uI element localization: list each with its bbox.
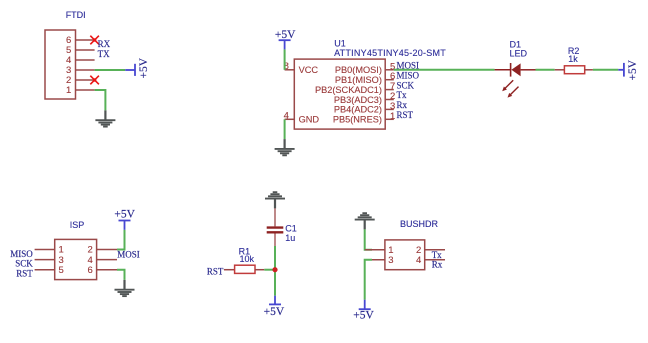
ISP pin 6 xyxy=(97,269,117,271)
BUSHDR pin 2 xyxy=(425,249,445,251)
svg-text:Tx: Tx xyxy=(432,250,442,260)
wire MOSI net U1 to LED xyxy=(394,69,495,71)
svg-text:PB2(SCKADC1): PB2(SCKADC1) xyxy=(315,85,382,95)
wire FTDI pin3 to +5V xyxy=(95,69,126,71)
ISP pin 4 xyxy=(97,259,117,261)
svg-text:+5V: +5V xyxy=(275,29,296,41)
FTDI body xyxy=(45,30,76,99)
op IC U1 body xyxy=(294,59,385,129)
svg-text:SCK: SCK xyxy=(397,80,415,90)
U1 pin 6 PB1 xyxy=(385,79,394,81)
wire LED to R2 xyxy=(536,69,555,71)
svg-text:6: 6 xyxy=(88,265,93,276)
svg-text:10k: 10k xyxy=(240,254,255,264)
supply +5V below C1 xyxy=(264,296,285,319)
LED D1 xyxy=(495,40,536,98)
svg-text:RST: RST xyxy=(397,110,414,120)
svg-text:BUSHDR: BUSHDR xyxy=(400,219,439,229)
wire ISP pin2 to +5V xyxy=(117,230,125,250)
ground above BUSHDR xyxy=(355,213,375,229)
FTDI pin 3 xyxy=(76,69,95,71)
svg-text:Rx: Rx xyxy=(432,260,443,270)
svg-text:+5V: +5V xyxy=(627,59,639,80)
wire R2 to +5V xyxy=(593,69,618,71)
U1 pin 7 PB2 xyxy=(385,89,394,91)
svg-text:PB4(ADC2): PB4(ADC2) xyxy=(334,105,382,115)
junction dot xyxy=(272,267,277,272)
ground at ISP xyxy=(115,280,135,296)
svg-text:PB1(MISO): PB1(MISO) xyxy=(335,75,382,85)
supply +5V right xyxy=(618,59,639,80)
supply +5V below BUSHDR xyxy=(353,300,374,322)
wire ISP pin6 to ground xyxy=(117,270,125,280)
svg-text:MISO: MISO xyxy=(397,70,420,80)
svg-text:1k: 1k xyxy=(568,54,578,64)
svg-text:Tx: Tx xyxy=(397,90,407,100)
capacitor C1 xyxy=(267,208,297,246)
resistor R1 xyxy=(224,246,264,273)
BUSHDR pin 3 xyxy=(365,259,385,261)
svg-text:ATTINY45TINY45-20-SMT: ATTINY45TINY45-20-SMT xyxy=(334,48,446,58)
U1 pin 3 PB4 xyxy=(385,108,394,110)
ground at U1 xyxy=(275,139,295,155)
U1 pin 8 VCC xyxy=(285,69,295,71)
svg-text:ISP: ISP xyxy=(70,220,85,230)
svg-text:1: 1 xyxy=(390,111,395,122)
FTDI pin 4 xyxy=(76,59,95,61)
resistor R2 xyxy=(555,46,593,74)
svg-text:3: 3 xyxy=(388,255,393,266)
svg-text:SCK: SCK xyxy=(15,258,33,268)
svg-text:GND: GND xyxy=(299,115,320,125)
svg-text:C1: C1 xyxy=(285,223,297,233)
U1 pin 2 PB3 xyxy=(385,99,394,101)
svg-text:MOSI: MOSI xyxy=(117,249,140,259)
svg-text:5: 5 xyxy=(59,265,64,276)
svg-text:PB0(MOSI): PB0(MOSI) xyxy=(335,65,382,75)
connector BUSHDR xyxy=(365,219,445,270)
svg-text:RST: RST xyxy=(16,268,33,278)
BUSHDR pin 4 xyxy=(425,259,445,261)
LED arrow 1 xyxy=(505,80,514,89)
connector ISP xyxy=(35,220,117,280)
svg-text:RX: RX xyxy=(98,39,111,49)
ISP pin 1 xyxy=(35,249,55,251)
svg-text:+5V: +5V xyxy=(114,209,135,221)
svg-text:Rx: Rx xyxy=(397,100,408,110)
ground at FTDI pin1 xyxy=(95,110,115,126)
U1 pin 5 PB0 xyxy=(385,69,394,71)
wire BUSHDR pin3 to +5V xyxy=(365,260,372,300)
wire FTDI pin1 to ground xyxy=(95,90,106,110)
svg-text:1: 1 xyxy=(66,85,71,96)
no-connect X on FTDI pin 6 xyxy=(90,36,99,45)
svg-text:+5V: +5V xyxy=(353,310,374,322)
connector FTDI xyxy=(45,10,95,99)
ISP pin 2 xyxy=(97,249,117,251)
svg-text:FTDI: FTDI xyxy=(66,10,86,20)
svg-text:RST: RST xyxy=(207,267,224,277)
svg-text:PB3(ADC3): PB3(ADC3) xyxy=(334,95,382,105)
U1 pin 4 GND xyxy=(285,118,295,120)
svg-text:4: 4 xyxy=(416,255,421,266)
wire R1 to junction xyxy=(264,269,275,271)
svg-text:VCC: VCC xyxy=(299,65,319,75)
ISP pin 3 xyxy=(35,259,55,261)
supply +5V at U1 xyxy=(275,29,296,49)
wire U1 GND down xyxy=(284,119,286,139)
supply +5V at FTDI xyxy=(125,57,150,78)
ground above C1 xyxy=(265,192,285,208)
svg-text:LED: LED xyxy=(510,48,528,58)
wire U1 VCC to +5V xyxy=(284,49,286,69)
wire C1 to junction to +5V xyxy=(274,246,276,296)
svg-text:PB5(NRES): PB5(NRES) xyxy=(333,115,382,125)
svg-text:1u: 1u xyxy=(285,233,295,243)
BUSHDR pin 1 xyxy=(365,249,385,251)
LED arrow 2 xyxy=(510,87,519,96)
no-connect X on FTDI pin 2 xyxy=(90,76,99,85)
U1 pin 1 PB5 xyxy=(385,118,394,120)
FTDI pin 6 xyxy=(76,39,95,41)
wire BUSHDR pin1 to ground xyxy=(365,229,372,249)
svg-text:TX: TX xyxy=(98,49,110,59)
svg-text:U1: U1 xyxy=(334,39,346,49)
FTDI pin 5 xyxy=(76,49,95,51)
svg-text:MOSI: MOSI xyxy=(397,61,420,71)
supply +5V at ISP xyxy=(114,209,135,230)
FTDI pin 1 xyxy=(76,89,95,91)
svg-text:+5V: +5V xyxy=(264,306,285,318)
svg-text:+5V: +5V xyxy=(138,57,150,78)
FTDI pin 2 xyxy=(76,79,95,81)
ISP pin 5 xyxy=(35,269,55,271)
